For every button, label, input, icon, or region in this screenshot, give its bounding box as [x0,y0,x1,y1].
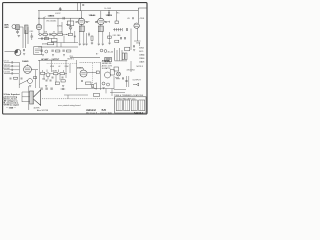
wire drop x109 [108,11,110,12]
resistor R13 [60,73,64,75]
fuse box F1 [114,67,119,71]
capacitor C35 [88,33,90,37]
wire x1395 [139,43,141,46]
electrolytic E4 [102,82,105,85]
svg-text:5A410-1: 5A410-1 [134,112,144,115]
capacitor C22 [21,78,22,80]
pilot lamp PL1 [117,72,121,76]
svg-text:AF AMP — OUTPUT: AF AMP — OUTPUT [41,58,60,61]
svg-text:50C5: 50C5 [139,51,143,53]
filter choke box [125,47,130,51]
svg-text:470K: 470K [50,66,55,68]
oscillator coil L3 [25,25,28,34]
wire drops [51,60,76,90]
resistor R5 [56,50,60,52]
capacitor C38 [134,45,135,47]
text block paragraph [4,93,20,109]
capacitor C32 [121,37,122,39]
node junction [38,18,39,19]
svg-text:30 WATTS: 30 WATTS [102,67,111,70]
coil L5 [125,53,127,60]
resistor R7 [91,36,93,40]
capacitor C3 [30,36,33,37]
capacitor C18 [4,65,15,67]
resistor R4 [48,43,54,45]
resistor R12 [54,73,58,75]
capacitor C30 [51,88,52,90]
wire vol down [19,70,35,88]
capacitor C14 [95,21,96,23]
tube layout panel [115,97,147,113]
resistor R18 zigzag [115,77,120,79]
wire output feeder [138,8,147,23]
ground g3 [52,55,54,57]
resistor R20 [108,36,112,38]
dashed chassis line [80,62,100,64]
svg-text:220K: 220K [65,66,70,68]
svg-text:35W4: 35W4 [77,67,83,70]
resistor R4b [44,38,48,40]
capacitor C29 [46,88,47,90]
capacitor C17 [4,61,15,63]
ground g13 [62,86,64,88]
resistor R15 [96,71,99,74]
tube V2 12BA6 IF amp [78,18,85,25]
ground g17 [108,43,110,45]
svg-text:B−: B− [96,54,99,56]
wire V4 down [136,28,138,41]
wire gang leads [19,27,28,48]
resistor R16 [86,82,91,85]
dashed divider vertical [92,63,94,88]
svg-text:OSC. PAD: OSC. PAD [113,34,122,37]
ground g14 [103,88,105,90]
dial box [34,47,42,55]
capacitor C10 [82,4,84,7]
resistor R14 [55,82,59,85]
pot circle R11 [46,73,50,77]
wire mid rail [38,46,78,48]
ground g4 [63,55,65,57]
ground g8 [85,44,87,46]
capacitor C39 [34,77,37,79]
wire ps drops [127,76,129,87]
ground g2 [42,55,44,57]
resistor R6 [67,50,71,52]
wire drop [66,18,71,24]
wire V6 out [87,71,96,73]
wire line y92 [110,92,125,94]
resistor R10 [41,72,45,74]
volume control R9 [28,79,33,84]
node junction dot [66,34,67,35]
capacitor C16 [127,28,128,31]
svg-text:470K: 470K [140,18,145,20]
output transformer T3 [30,91,34,104]
svg-text:.05: .05 [127,18,131,20]
wire V1 plate [38,11,40,25]
capacitor C19 [4,69,15,71]
transformer box T4 [51,38,57,41]
ground g9 [98,44,100,46]
wiper arrow [19,80,28,84]
svg-text:OSC: OSC [30,31,34,33]
coil hash row [115,28,123,31]
IF transformer T2 [98,26,103,32]
tube V6 35W4 rect [80,70,87,77]
ground [18,35,21,37]
capacitor C27 [125,81,127,82]
wire V5 out [31,69,38,71]
wire bundle dial cords [115,48,123,61]
resistor R1 [43,33,47,35]
svg-text:IRC: IRC [117,13,121,15]
socket S4 [139,100,145,111]
wire osc section [113,29,122,31]
capacitor C31 [61,88,66,90]
wire row2 [38,38,51,40]
svg-text:12BE6 12BA6 12AV6 50C5: 12BE6 12BA6 12AV6 50C5 [116,97,135,100]
resistor R3b [68,33,72,35]
ground g6 [79,44,81,46]
svg-text:Admiral: Admiral [85,108,96,112]
socket S2 [124,100,130,111]
capacitor C5 [42,37,43,39]
switch S1 [43,17,45,19]
wire top bus B+ [38,10,138,12]
svg-text:uses printed wiring board: uses printed wiring board [58,104,81,107]
capacitor C34 [108,11,110,14]
wire audio rail [38,59,68,61]
ground g18 [133,50,135,52]
capacitor C13 [106,21,107,23]
wire ticks af row [43,70,64,73]
svg-text:47Ω 35W4: 47Ω 35W4 [127,70,135,72]
socket S1 [116,100,122,111]
ground g11 [29,86,31,88]
capacitor C28 [41,88,42,90]
wire ant lead [5,51,15,53]
resistor R3 [58,33,63,35]
wire feeder V2b [77,3,79,11]
wire verticals center [44,18,70,47]
svg-text:CONV.: CONV. [57,26,63,28]
wire drop x100 [100,62,102,90]
wire V1 down [38,30,40,34]
wire rail y42 [51,42,78,44]
wire ell [134,40,141,42]
capacitor C33 [125,37,126,39]
resistor R22 [115,40,119,42]
dotted line af [47,63,77,65]
wire T2 secondary drops [99,32,103,44]
wire heater rail [70,57,100,59]
wire osc [31,33,33,40]
tube V5 audio [24,66,32,74]
capacitor C15 [133,17,134,19]
capacitor C20 [4,72,15,74]
capacitor C9 [24,49,25,51]
svg-text:40+40: 40+40 [108,52,115,54]
wire feeder V2 [80,3,82,11]
svg-text:12AV6: 12AV6 [22,60,29,63]
junction node [108,10,109,11]
capacitor C37 [50,80,51,82]
svg-text:OSC 1620KC: OSC 1620KC [46,21,57,23]
capacitor C8 [63,50,64,52]
resistor R17 [110,70,114,75]
svg-text:Alex 5/27/58: Alex 5/27/58 [37,109,49,112]
svg-text:LOOP: LOOP [55,13,61,15]
wire drop x1095 [109,32,111,43]
svg-text:— 1958 —: — 1958 — [6,107,17,109]
ground g7 [83,44,85,46]
wire V3 stubs [96,21,109,23]
antenna arrow A1 [59,7,62,10]
tube V1 12BE6 converter [36,24,41,29]
electrolytic E2 [104,50,107,53]
svg-text:GND: GND [4,27,9,29]
capacitor C21 [10,78,11,80]
wire bus2 [38,17,80,19]
wire b line [64,95,88,99]
ground g12 [45,86,47,88]
arrow speaker feed [133,83,139,86]
electrolytic can E3 [105,72,111,78]
capacitor C24 [62,77,63,79]
resistor R8 [14,77,18,79]
svg-text:10M: 10M [54,71,58,73]
label box 5A410 [105,57,112,61]
capacitor C6 [41,50,42,52]
electrolytic E1 [100,49,103,52]
svg-text:270: 270 [42,78,45,80]
svg-text:12BA6: 12BA6 [89,14,97,17]
component box small [94,93,100,96]
IF transformer T1 [79,26,84,32]
trimmer circle VC1 [45,50,48,53]
wire bundle join [115,60,128,62]
wire spk leads [22,92,30,102]
wire bc lines [76,89,114,97]
svg-text:.02: .02 [58,66,60,68]
plug circle [69,26,72,29]
capacitor C23 [52,77,53,79]
capacitor C7 [52,50,53,52]
svg-text:12BE6: 12BE6 [48,16,55,18]
wire speaker vert [28,86,30,110]
wire ps bottom [114,76,126,89]
resistor R21 [61,80,65,82]
wire row [38,33,68,35]
capacitor C36 [46,80,47,82]
resistor R19 [115,21,119,24]
svg-text:5J3: 5J3 [102,108,107,112]
wire V3 plate [100,11,102,19]
capacitor C4 [49,33,50,35]
svg-text:12AV6: 12AV6 [139,61,144,64]
ground g15 [108,13,110,16]
socket S3 [131,100,137,111]
wire feeder x748 [74,31,76,43]
ground g10 [102,44,104,46]
tube V3 12AV6 det [98,18,105,25]
wire interconnects [44,64,70,82]
dial box text [35,49,41,52]
capacitor C12 [76,21,77,23]
capacitor C5b [74,35,76,38]
capacitor C25 [82,80,83,82]
wire V2 stubs [77,21,90,23]
svg-text:150Ω: 150Ω [136,43,141,45]
ground g5 [23,54,25,56]
svg-text:35W4: 35W4 [139,48,144,50]
wire V2 plate [81,11,83,19]
svg-text:B+ 100V: B+ 100V [105,8,112,10]
node circle N1 [39,33,41,35]
capacitor C2 [16,30,19,34]
antenna coil L1 [12,25,16,29]
dashed line bottom [42,98,116,100]
wire T1 secondary drops [80,32,87,44]
capacitor C11 [87,21,88,23]
svg-text:NOTE 3: NOTE 3 [137,66,144,68]
wire drop x1167 [116,11,118,21]
svg-text:OUTPUT: OUTPUT [133,80,142,82]
electrolytic E5 [107,83,110,86]
wire x131 lower [130,61,132,72]
tuning gang VC2 [15,49,21,55]
wire mid row [45,72,67,74]
border frame [3,3,147,114]
wire x131 drop [130,29,132,51]
speaker icon small [92,83,97,90]
tube V4 50C5 output [134,23,139,28]
wire rows to tube [15,62,20,73]
capacitor C1 [63,17,64,20]
svg-text:NOTE 1: NOTE 1 [68,58,75,60]
plug P1 [67,21,74,26]
svg-text:12BA6: 12BA6 [139,54,144,57]
ground g16 [91,42,93,45]
capacitor C26 [122,77,123,79]
coil L2 core [16,25,20,30]
svg-text:12BE6: 12BE6 [139,58,144,60]
speaker SP1 cone [34,90,41,106]
coil L4 [122,53,124,60]
resistor R2 [52,33,56,35]
wire left drop [38,60,40,88]
